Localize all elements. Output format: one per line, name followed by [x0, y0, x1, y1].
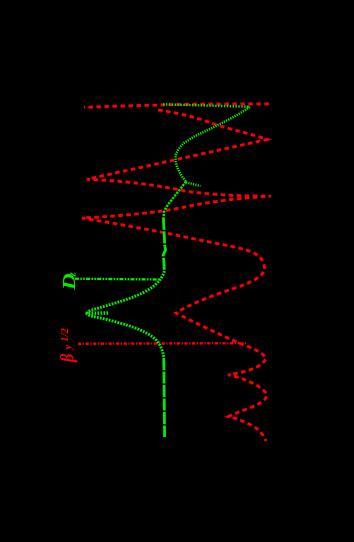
green right tick at y=183: [186, 182, 201, 186]
green bump tip cluster: [86, 311, 109, 315]
svg-text:z: z: [67, 272, 79, 278]
svg-text:β: β: [56, 354, 78, 363]
green curve: diagonal from top line, fine dotted texture: [176, 107, 251, 182]
green pointer line for D_z label: [75, 278, 160, 281]
red pointer line for beta label: [78, 342, 246, 345]
green D_z curve: top fine dotted line: [163, 104, 250, 107]
green curve: descent to vertical line: [163, 182, 186, 219]
svg-text:1/2: 1/2: [59, 327, 71, 342]
green curve: vertical line lower part: [162, 358, 166, 437]
svg-text:y: y: [62, 345, 74, 352]
green curve: vertical line upper part: [163, 218, 165, 271]
green curve: bump excursion to the left: [88, 271, 165, 358]
red beta_y^1/2 curve : top flat line: [82, 104, 271, 441]
